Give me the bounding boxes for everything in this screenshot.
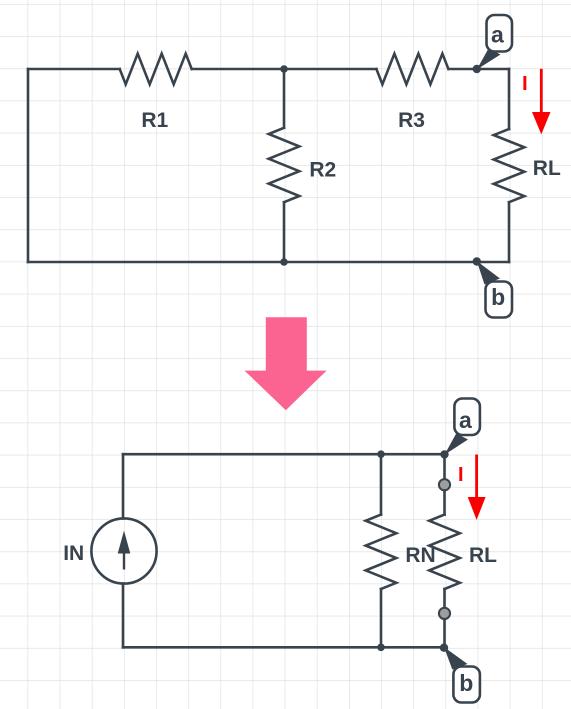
wire RL branch upper (443, 454, 446, 485)
wire RN branch lower (380, 589, 383, 647)
current arrow I (bottom circuit) head (468, 497, 486, 520)
wire top-circuit top right segment (449, 68, 509, 71)
current source IN arrow head (118, 531, 131, 554)
resistor R2 (269, 128, 300, 202)
node b (bottom circuit) dot (440, 644, 448, 652)
current arrow I (top circuit) head (532, 112, 551, 134)
node b (top circuit) dot (473, 257, 481, 265)
terminal dot RL upper (gray) (439, 479, 450, 490)
terminal dot RL lower (gray) (439, 608, 450, 619)
svg-text:a: a (491, 22, 504, 48)
node a (bottom circuit) callout pointer (445, 434, 469, 455)
svg-text:I: I (458, 464, 464, 486)
wire R2 branch lower (283, 202, 286, 262)
svg-text:R3: R3 (398, 109, 425, 132)
resistor R3 (376, 54, 448, 85)
junction dot R2 bottom (280, 258, 288, 266)
wire bottom-circuit left lower (122, 584, 125, 648)
resistor RN (366, 515, 397, 589)
svg-text:RL: RL (533, 157, 561, 180)
node a (bottom circuit) dot (440, 450, 448, 458)
big pink transform arrow (245, 317, 327, 410)
svg-text:R1: R1 (141, 109, 168, 132)
node b (top circuit) label box (486, 282, 513, 318)
svg-text:RL: RL (469, 544, 497, 567)
wire bottom-circuit left upper (122, 454, 125, 518)
resistor RL (bottom circuit) (429, 515, 460, 589)
svg-text:RN: RN (405, 544, 435, 567)
resistor R1 (120, 54, 192, 85)
junction dot RN bottom (377, 644, 385, 652)
wire top-circuit right side lower (508, 202, 511, 262)
wire bottom-circuit top side (123, 453, 445, 456)
svg-text:b: b (459, 670, 473, 696)
wire top-circuit top middle segment (192, 68, 377, 71)
current source IN circle (91, 518, 156, 583)
wire RL branch lower (443, 613, 446, 647)
wire top-circuit bottom side (28, 261, 509, 264)
node a (bottom circuit) label box (454, 399, 480, 436)
node a (top circuit) label box (487, 15, 513, 52)
current source IN arrow shaft (123, 551, 125, 570)
svg-text:I: I (522, 72, 528, 95)
svg-text:IN: IN (63, 542, 84, 565)
wire top-circuit left side (27, 69, 30, 262)
svg-text:R2: R2 (309, 159, 336, 182)
wire RN branch upper (380, 454, 383, 514)
junction dot R2 top (280, 65, 288, 73)
node b (bottom circuit) label box (453, 667, 480, 703)
wire RL branch upper-middle (443, 485, 446, 515)
wire RL branch lower-middle (443, 589, 446, 613)
junction dot RN top (377, 450, 385, 458)
wire top-circuit top left segment (28, 68, 120, 71)
wire R2 branch upper (283, 69, 286, 128)
node b (bottom circuit) callout pointer (444, 647, 468, 670)
node a (top circuit) dot (473, 65, 481, 73)
node a (top circuit) callout pointer (477, 49, 501, 70)
wire top-circuit right side upper (508, 69, 511, 129)
wire bottom-circuit bottom side (123, 646, 445, 649)
resistor RL (top circuit) (494, 129, 525, 202)
node b (top circuit) callout pointer (477, 261, 500, 285)
current arrow I (bottom circuit) shaft (475, 455, 478, 499)
current arrow I (top circuit) shaft (540, 69, 543, 114)
svg-text:b: b (491, 284, 505, 310)
svg-text:a: a (459, 407, 472, 433)
